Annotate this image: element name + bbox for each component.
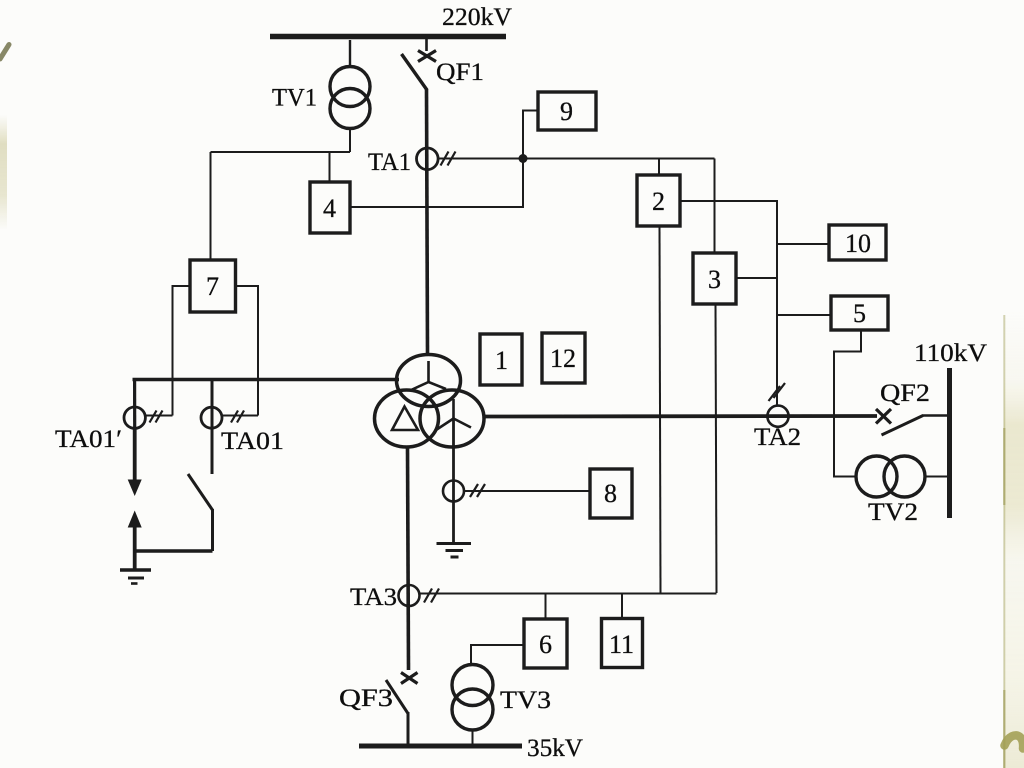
wire left 220kV winding horizontal xyxy=(133,378,400,381)
circuit breaker QF1 xyxy=(402,39,437,90)
svg-text:9: 9 xyxy=(560,97,573,126)
relay box 6 xyxy=(524,619,567,668)
wire TA3 secondary horizontal xyxy=(420,593,717,595)
svg-text:3: 3 xyxy=(708,265,721,294)
voltage transformer TV3 xyxy=(452,665,493,731)
wire box 4 right to junction xyxy=(350,159,523,208)
TA01 secondary slashes xyxy=(231,411,244,423)
wire horizontal node TV1/box4/box7 xyxy=(211,151,351,153)
relay box 5 xyxy=(831,296,888,330)
relay box 8 xyxy=(590,469,632,518)
current transformer TA1 xyxy=(417,148,439,170)
current transformer TA01 xyxy=(201,407,222,428)
35kV bus xyxy=(359,744,522,749)
wire TA1 secondary corner down to box 3 xyxy=(714,159,716,254)
relay box 1 xyxy=(480,334,522,385)
svg-text:TA01: TA01 xyxy=(221,428,284,455)
svg-text:TV3: TV3 xyxy=(500,687,551,714)
svg-text:110kV: 110kV xyxy=(914,340,987,367)
svg-text:220kV: 220kV xyxy=(442,4,512,31)
svg-text:6: 6 xyxy=(539,630,552,659)
wire box 2 top branch xyxy=(658,159,660,176)
wire box 6 to TV3 xyxy=(471,645,524,665)
svg-text:5: 5 xyxy=(853,299,866,328)
circuit breaker QF3 xyxy=(386,673,418,745)
wire box 11 drop xyxy=(621,594,623,620)
relay box 11 xyxy=(602,619,643,668)
wire transformer 35kV leg down xyxy=(408,446,409,670)
voltage transformer TV1 xyxy=(330,67,370,129)
wire TV2 to bus xyxy=(925,476,948,478)
relay box 10 xyxy=(829,225,886,260)
wire box 5 xyxy=(777,314,831,316)
wire box 6 drop xyxy=(545,594,547,620)
svg-text:10: 10 xyxy=(845,229,871,258)
ground TA01' xyxy=(120,570,151,584)
110kV bus xyxy=(947,368,952,518)
relay box 12 xyxy=(542,333,585,383)
relay box 7 xyxy=(190,260,236,312)
svg-text:TA01′: TA01′ xyxy=(55,426,122,453)
wire 110kV main horizontal xyxy=(483,414,877,418)
relay box 3 xyxy=(693,253,736,304)
svg-text:4: 4 xyxy=(323,194,336,223)
svg-text:QF1: QF1 xyxy=(436,59,484,86)
svg-text:35kV: 35kV xyxy=(527,735,583,762)
svg-text:TV1: TV1 xyxy=(272,85,317,112)
wire junction to box 9 xyxy=(523,111,538,159)
junction node on TA1 secondary xyxy=(519,154,528,163)
wire box 7 right secondary xyxy=(236,286,259,416)
circuit breaker QF2 xyxy=(876,409,948,435)
voltage transformer TV2 xyxy=(856,456,925,497)
transformer T 110kV winding (wye) xyxy=(420,390,484,447)
svg-text:1: 1 xyxy=(495,346,508,375)
TA01 secondary connector xyxy=(222,415,258,417)
relay box 9 xyxy=(538,92,596,130)
svg-text:7: 7 xyxy=(206,272,219,301)
TA01' secondary slashes xyxy=(150,411,163,423)
wire box 3 bottom long vertical xyxy=(716,304,717,593)
svg-text:TA1: TA1 xyxy=(368,149,411,176)
svg-text:8: 8 xyxy=(604,479,617,508)
transformer T 35kV winding (delta) xyxy=(375,390,439,447)
svg-text:QF3: QF3 xyxy=(339,685,393,712)
220kV bus xyxy=(270,34,506,40)
relay box 2 xyxy=(637,175,680,226)
wire neutral CT to box 8 xyxy=(464,490,590,492)
TA3 secondary slashes xyxy=(424,589,439,603)
wire TV1 secondary down xyxy=(349,129,351,153)
svg-text:12: 12 xyxy=(550,344,576,373)
current transformer TA2 xyxy=(767,406,788,427)
wire QF1 to transformer (220kV main vertical) xyxy=(427,89,428,353)
svg-text:TV2: TV2 xyxy=(868,499,918,526)
wire box 5 to TV2 xyxy=(834,330,861,477)
ground transformer neutral xyxy=(437,544,472,558)
svg-text:TA3: TA3 xyxy=(350,584,397,611)
wire TA01' down with arrow xyxy=(128,429,142,497)
current transformer TA01' xyxy=(124,407,145,428)
wire box 10 xyxy=(777,243,829,245)
transformer T 220kV winding (wye) xyxy=(397,355,461,407)
arrow up toward TA01' xyxy=(128,511,142,570)
wire TA1 secondary horizontal xyxy=(438,158,715,160)
wire TV3 to 35kV bus xyxy=(472,730,474,745)
neutral CT slashes xyxy=(470,484,485,497)
wire box 3 right xyxy=(736,277,777,279)
current transformer on neutral xyxy=(443,481,464,502)
wire from bus down to TV1 xyxy=(349,40,351,67)
svg-text:2: 2 xyxy=(652,187,665,216)
wire box 4 top drop xyxy=(329,152,331,182)
wire box 2 bottom long vertical xyxy=(660,226,661,593)
wire transformer neutral down xyxy=(452,419,455,544)
wire box 2 right + TA2 secondary vertical xyxy=(680,201,777,406)
wire left winding lead down to TA01' xyxy=(133,380,136,431)
relay box 4 xyxy=(310,182,350,233)
disconnect switch knife xyxy=(188,380,213,552)
wire TA01' secondary connector xyxy=(145,415,172,417)
wire box 7 top xyxy=(210,152,212,260)
TA2 secondary slashes xyxy=(769,383,786,401)
current transformer TA3 xyxy=(399,585,420,606)
svg-text:TA2: TA2 xyxy=(754,424,801,451)
wire box 7 left secondary xyxy=(173,286,191,416)
svg-text:11: 11 xyxy=(609,630,634,659)
wire ground branch horizontal to switch xyxy=(135,549,213,552)
svg-text:QF2: QF2 xyxy=(880,380,930,407)
TA1 secondary slashes xyxy=(441,152,456,166)
